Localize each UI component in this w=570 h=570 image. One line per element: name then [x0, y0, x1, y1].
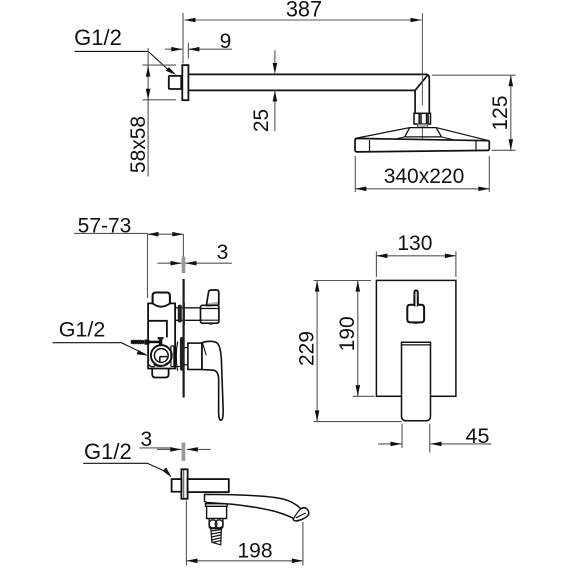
escutcheon dark band	[180, 337, 185, 371]
svg-text:229: 229	[296, 331, 319, 366]
leader arrow G1/2 top	[166, 67, 177, 75]
dim 45 lines	[378, 424, 492, 453]
dim 340x220 arrows	[355, 187, 489, 192]
leader arrow G1/2 mid	[137, 350, 148, 356]
knob bottom bump	[413, 323, 420, 324]
dim 125 lines	[432, 75, 516, 150]
curve under circle	[154, 363, 168, 367]
dim 190 arrows	[356, 281, 361, 397]
svg-text:G1/2: G1/2	[59, 318, 106, 342]
spout wall plate	[181, 469, 187, 499]
svg-text:130: 130	[397, 232, 432, 255]
shower head slab	[355, 138, 489, 152]
check valve circle inner	[154, 349, 168, 363]
dim 57-73 arrows	[148, 232, 184, 237]
dim 3 lines	[140, 448, 211, 450]
dim 57-73 lines	[74, 233, 183, 298]
svg-text:58x58: 58x58	[127, 116, 150, 173]
spout fitting stub	[172, 479, 182, 492]
handle front top band	[402, 344, 431, 346]
dim 387 arrows	[185, 18, 422, 23]
mixer body step	[148, 321, 167, 338]
check valve circle outer	[151, 345, 172, 366]
diverter keyhole knob	[407, 290, 424, 322]
dim 25 arrows	[273, 63, 278, 102]
dim 25 lines	[274, 50, 276, 131]
mixer body	[148, 303, 175, 368]
shower head cone	[405, 128, 442, 137]
handle stem lines	[185, 348, 188, 365]
stop post	[158, 337, 164, 346]
cover plate	[376, 280, 456, 396]
handle lever crease	[203, 343, 207, 355]
dim 340x220 lines	[355, 156, 489, 192]
wall section bar (3mm)	[182, 257, 186, 273]
spout mounting body	[188, 479, 229, 492]
wall section bar (3mm spout)	[182, 443, 186, 461]
wall flange (square escutcheon 58x58)	[182, 65, 188, 100]
svg-text:G1/2: G1/2	[84, 439, 132, 464]
svg-text:3: 3	[217, 241, 229, 264]
spout nut with eyes	[209, 519, 223, 529]
svg-text:387: 387	[286, 0, 322, 21]
dim 3 arrows	[171, 261, 197, 266]
threaded tail pipe	[211, 529, 222, 545]
dim 3 arrows	[170, 447, 198, 452]
svg-text:340x220: 340x220	[384, 165, 465, 188]
dim 229 lines	[314, 281, 402, 422]
diverter escutcheon dark band	[178, 305, 182, 323]
dim 130 lines	[376, 252, 456, 278]
spout tube	[205, 494, 309, 521]
diverter knob lines	[201, 309, 219, 321]
dim 387 line	[183, 13, 422, 64]
shower head slab inner lines	[370, 140, 477, 152]
arm centerline	[421, 13, 423, 141]
spout tip aerator line	[296, 513, 306, 518]
diverter lever	[206, 290, 218, 305]
leader arrow G1/2 bottom	[163, 468, 172, 478]
dim 198 lines	[186, 501, 303, 566]
svg-text:125: 125	[489, 95, 512, 130]
dim 229 arrows	[315, 281, 320, 422]
diverter knob lever shade	[206, 301, 219, 307]
dim 125 arrows	[509, 75, 514, 150]
mixer top port cup	[153, 303, 170, 306]
nut eye left	[209, 520, 217, 528]
G1/2 fitting stub	[169, 76, 181, 89]
wall dark band at diverter	[183, 303, 185, 325]
leader G1/2 bottom	[83, 463, 169, 473]
nut eye right	[215, 520, 223, 528]
spout tip crease	[294, 509, 301, 519]
escutcheon front arcs	[176, 342, 177, 371]
shower head connector nut	[414, 113, 431, 124]
check valve mark	[160, 357, 168, 362]
spout shank collar	[206, 504, 228, 519]
dim 58x58 arrows	[146, 66, 151, 100]
dim 9 lines	[165, 43, 232, 59]
svg-text:198: 198	[237, 539, 272, 562]
mixer bottom port	[152, 369, 168, 378]
wall line lower	[183, 279, 185, 398]
wall line upper	[182, 234, 184, 256]
dim 3 lines	[158, 262, 233, 264]
shower head cone skirts	[388, 137, 459, 141]
handle base	[188, 343, 202, 369]
dim 58x58 lines	[143, 48, 177, 177]
knob stem mark	[415, 294, 418, 296]
diverter knob	[201, 305, 219, 323]
handle lever	[202, 341, 223, 420]
dim 130 arrows	[376, 254, 456, 259]
shower arm	[188, 74, 429, 112]
screw nut	[144, 340, 149, 345]
dim 9 arrows	[171, 47, 199, 52]
svg-text:190: 190	[336, 316, 359, 351]
wall line (spout)	[183, 470, 185, 500]
screw shaft	[150, 341, 160, 344]
leader G1/2 mid	[53, 343, 146, 355]
shower head collar (gray)	[417, 124, 427, 128]
diverter stub lines	[175, 308, 200, 321]
screw thread (inlet)	[131, 340, 143, 345]
leader G1/2 top	[75, 51, 173, 73]
dim 198 arrows	[186, 559, 303, 564]
shower head top band	[355, 128, 488, 141]
cartridge lines	[171, 346, 180, 367]
diverter knob bottom bump	[207, 323, 215, 324]
mixer top port	[153, 293, 170, 304]
handle front	[402, 342, 431, 421]
svg-text:25: 25	[250, 109, 273, 132]
lug below circle	[148, 360, 156, 367]
dim 190 lines	[314, 281, 375, 397]
svg-text:G1/2: G1/2	[74, 25, 122, 50]
dim 45 arrows	[391, 442, 442, 447]
